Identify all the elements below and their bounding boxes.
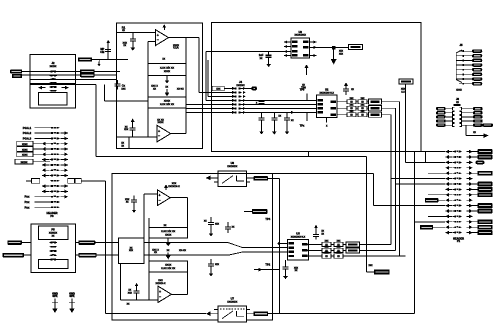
boxed net label DIN: [17, 141, 50, 146]
bus wire vertical left: [105, 181, 107, 314]
bus wire row5: [186, 103, 232, 105]
connector J2 shield inner box: [38, 93, 67, 106]
svg-text:xxxxx-x: xxxxx-x: [156, 282, 166, 285]
connector P5 outer box: [31, 224, 75, 272]
wire MIC_IN into box A: [92, 59, 128, 61]
cap mid right 1: [204, 217, 220, 237]
box D outline: [112, 174, 273, 321]
net label PGA2: [23, 131, 50, 135]
right loop vertical inner: [278, 178, 280, 313]
ground mid gain D: [166, 238, 171, 246]
resistor block RB4: [149, 261, 188, 272]
connector P5 inner bottom box: [39, 260, 69, 269]
wire J2 shield out: [76, 84, 96, 86]
IC U2 body: [317, 87, 338, 117]
component U6 pins: [214, 178, 254, 182]
wire J4 row6 right: [241, 107, 316, 109]
svg-text:U3: U3: [298, 30, 302, 34]
svg-text:TP2: TP2: [265, 262, 270, 266]
IC U2 power cap and arrow: [343, 82, 354, 94]
svg-text:xxxx: xxxx: [22, 154, 28, 157]
capacitor C2 on left edge: [115, 80, 127, 90]
svg-text:xxxxxxxx: xxxxxxxx: [294, 34, 306, 37]
gain resistor row 2: [346, 104, 396, 110]
svg-text:−: −: [159, 198, 161, 202]
svg-text:xxx: xxx: [216, 88, 221, 91]
text TP4 upper: [265, 217, 272, 227]
arrow into U2 pin: [291, 111, 294, 114]
net flag VCC right: [399, 79, 413, 93]
net flag MIC_R: [12, 74, 80, 78]
svg-text:xxxxxx: xxxxxx: [236, 84, 245, 87]
wire J2 third out: [30, 79, 116, 81]
svg-text:−: −: [157, 38, 159, 42]
net flag MIC_L: [10, 69, 80, 73]
arrow D low: [254, 268, 279, 272]
connector J6 label: [456, 97, 460, 104]
svg-text:−: −: [159, 295, 161, 299]
wire D out row1: [144, 242, 228, 244]
svg-text:xxxxx: xxxxx: [50, 65, 57, 68]
connector P1 right arrows: [467, 150, 473, 235]
op-amp U4B label: [156, 279, 166, 285]
cap mid right 2: [225, 222, 235, 233]
bottom resistor row 1: [314, 241, 391, 247]
ground GND_SPK 1: [52, 291, 58, 313]
IC U5 power cap and arrow: [313, 225, 325, 240]
svg-text:Pxx: Pxx: [24, 195, 29, 199]
connector J2 pin rows: [50, 71, 58, 92]
gain select text D: [179, 249, 186, 252]
wire box A top rail: [116, 32, 155, 34]
2-pin input block: [119, 238, 145, 263]
IC U3 left pins: [284, 40, 291, 57]
connector J2 outer box: [30, 55, 75, 84]
connector J2 label: [50, 61, 57, 68]
rail right top: [185, 38, 187, 97]
net label PGA1: [23, 126, 50, 130]
connector P5 label: [49, 228, 58, 238]
boxed label J4 left: [212, 86, 232, 91]
connector J4 pin arrowheads: [232, 87, 246, 114]
wire U4A in top: [144, 194, 158, 238]
connector P1 pin rows: [453, 151, 462, 234]
text TP2 lower: [265, 259, 272, 266]
op-amp U4A label: [168, 182, 180, 188]
boxed net label DOUT: [17, 147, 50, 152]
long route wire left vertical: [95, 85, 97, 157]
right loop bottom: [268, 313, 414, 315]
svg-text:+: +: [158, 130, 160, 134]
connector P5 pin rows: [50, 242, 58, 261]
svg-text:x.xx x/x xx: x.xx x/x xx: [160, 102, 175, 106]
resistor block RB1: [148, 57, 186, 75]
gain resistor row 1: [346, 98, 400, 104]
wire box F corner to P1: [421, 152, 445, 163]
svg-text:PGA.3: PGA.3: [23, 137, 32, 141]
gain resistor row 3: [346, 111, 391, 117]
bus wire bottom horizontal: [106, 313, 207, 315]
net flag E lower: [367, 156, 390, 274]
svg-text:xxxx: xxxx: [165, 233, 172, 237]
op-amp U1B: [157, 125, 171, 142]
net flag U3 out: [317, 44, 363, 49]
ground cap b: [272, 125, 277, 135]
route wire top of box D: [112, 173, 218, 175]
resistor R1 label: [122, 25, 126, 32]
svg-text:xxx: xxx: [215, 263, 220, 266]
svg-text:+: +: [159, 194, 161, 198]
net flag SPK- left: [3, 253, 32, 257]
text TP5 lower: [300, 112, 307, 127]
IC U3 right pins: [310, 40, 317, 57]
svg-text:+: +: [159, 290, 161, 294]
svg-text:−: −: [158, 134, 160, 138]
connector J6 bottom wire: [466, 125, 489, 138]
svg-text:xxxx: xxxx: [22, 148, 28, 151]
connector P1 left arrows: [446, 150, 453, 235]
svg-text:xxxx: xxxx: [22, 143, 28, 146]
svg-text:xxx: xxx: [215, 223, 220, 226]
svg-text:xxx: xxx: [368, 264, 373, 267]
wire box A bottom rail: [116, 136, 157, 138]
connector P1 label: [453, 236, 464, 243]
net flag U7 right: [254, 311, 269, 316]
op-amp U1B output: [171, 133, 186, 135]
rail right RB: [185, 108, 187, 134]
op-amp U1A label: [173, 44, 180, 50]
svg-text:xx-xx: xx-xx: [177, 88, 184, 91]
IC U3 power arrow: [305, 64, 309, 75]
box A outline: [116, 23, 202, 148]
cap mid right 3: [208, 259, 220, 277]
cap on bottom rail: [124, 122, 136, 137]
svg-text:x.xx x/x xx: x.xx x/x xx: [161, 266, 176, 270]
connector P1 net flags: [473, 149, 493, 235]
wire into U5 rows: [243, 248, 288, 252]
flag on P1 row15: [420, 225, 445, 230]
IC U2 bottom stub: [326, 117, 328, 127]
wire box D bottom rail: [121, 299, 159, 301]
component U6 switch: [220, 174, 245, 184]
IC U2 right pins: [338, 102, 347, 115]
ground at MIC node: [97, 60, 100, 67]
svg-text:xxx: xxx: [121, 87, 126, 90]
right loop vertical outer: [414, 152, 416, 314]
svg-text:PGA.1: PGA.1: [23, 126, 32, 130]
svg-text:xxxxx: xxxxx: [21, 161, 28, 164]
long route wire rise: [308, 152, 310, 157]
ground mid gain: [165, 75, 170, 83]
rail left RB D: [148, 218, 150, 300]
wire J4 row7 right: [241, 111, 316, 113]
wire J4 row4 right: [241, 99, 316, 101]
resistor block RB3: [149, 224, 188, 238]
component U6 box: [218, 171, 247, 187]
rail right RB D: [187, 272, 189, 295]
rail left RB: [147, 42, 149, 138]
wire gain input inside box A: [116, 100, 148, 102]
bottom resistor row 3: [314, 252, 405, 258]
ground below C_1uF: [266, 61, 271, 67]
component U7 left arrow: [206, 311, 218, 316]
power arrow VCC mic: [106, 40, 110, 43]
net flag OUT_R: [80, 73, 116, 77]
cap on D bottom rail: [128, 286, 140, 300]
box F outline: [212, 23, 421, 152]
svg-text:SPK: SPK: [52, 294, 57, 298]
wire VCC flag down: [405, 84, 445, 162]
connector J6 extra pad: [482, 123, 493, 126]
svg-text:CM: CM: [100, 50, 104, 54]
bus wire row7: [186, 111, 232, 113]
header P6 pin arrows: [42, 131, 68, 198]
net flag MIC_IN bar: [78, 57, 92, 61]
svg-text:TP4: TP4: [265, 217, 270, 221]
svg-text:xxxxxx-x: xxxxxx-x: [168, 185, 180, 188]
svg-text:TP5: TP5: [300, 88, 305, 92]
ground cap a: [259, 125, 264, 135]
boxed label P6 mid-left: [26, 179, 40, 184]
svg-text:xx: xx: [153, 87, 157, 90]
ground GND_SPK 2: [69, 291, 75, 313]
op-amp U4B output: [171, 293, 187, 295]
net label Px2: [24, 200, 50, 204]
branch to P1 row6: [391, 178, 445, 180]
gain select text: [177, 88, 184, 91]
boxed net label LRCLK: [15, 159, 50, 164]
connector J5 pad column: [464, 49, 482, 85]
junction cap mid F: [332, 46, 344, 55]
gain text left: [151, 85, 158, 91]
op-amp U1A output wire: [169, 37, 200, 39]
svg-text:xxx: xxx: [339, 52, 344, 55]
ground below C1: [131, 45, 136, 51]
branch to P1 row14: [415, 221, 445, 223]
staircase wire: [105, 85, 117, 102]
connector J4 label: [236, 80, 245, 87]
capacitor J4 row4: [256, 100, 265, 104]
connector J4 pin rows: [234, 88, 242, 114]
wire U4A out: [170, 198, 187, 228]
op-amp U4A: [158, 190, 171, 206]
net flag OUT_L: [80, 69, 120, 73]
boxed net label BCLK: [17, 152, 50, 157]
svg-text:Pxx: Pxx: [24, 205, 29, 209]
bus vertical 2: [208, 60, 232, 96]
text TP6: [301, 84, 306, 90]
op-amp U4B: [158, 286, 171, 302]
capacitor below b: [271, 112, 281, 124]
box A corner sub-box: [116, 137, 129, 148]
header P6 pin rows: [50, 127, 60, 208]
component U7 pins: [214, 310, 254, 314]
svg-text:U1A: U1A: [173, 46, 178, 50]
svg-text:xxxxxxx-x.x: xxxxxxx-x.x: [291, 236, 306, 239]
svg-text:xxx: xxx: [128, 291, 133, 294]
svg-text:J5: J5: [459, 43, 463, 47]
op-amp U1A: [156, 30, 169, 46]
capacitor C1: [123, 33, 136, 48]
component U7 box: [218, 306, 247, 322]
bus vertical 1: [199, 38, 232, 93]
svg-text:xx-xx: xx-xx: [179, 249, 186, 252]
bus wire row6: [186, 107, 232, 109]
wire J4 row5 right: [241, 103, 316, 105]
capacitor left U4A: [125, 196, 137, 207]
bottom resistor row 2: [314, 247, 396, 253]
svg-text:xx: xx: [154, 251, 158, 254]
net label PGA3: [23, 137, 50, 141]
wire P6 mid to bus: [81, 180, 105, 182]
branch to P1 row7: [396, 183, 445, 185]
ground cap c: [285, 125, 290, 135]
connector J6 right pads: [473, 107, 483, 127]
net flag SPK+ left: [7, 240, 31, 244]
twisted pair: [228, 243, 243, 256]
ground left U4A: [132, 207, 137, 213]
header P6 label: [47, 211, 58, 218]
net flag D mid: [244, 209, 267, 214]
IC U5 body: [288, 232, 309, 260]
net label Px1: [24, 195, 50, 199]
route wire U6 to corner: [247, 174, 445, 206]
connector J6 middle pins: [453, 104, 473, 126]
power arrow D bottom rail: [135, 283, 139, 286]
IC U5 bottom cap: [283, 260, 299, 273]
component U6 label: [227, 161, 238, 168]
net label Px3: [24, 205, 50, 209]
flag on P1 row10: [425, 198, 445, 203]
svg-text:xxxxxxx: xxxxxxx: [227, 165, 238, 168]
capacitor C_1uF: [259, 52, 272, 61]
svg-text:xxxx: xxxx: [157, 121, 164, 124]
svg-text:PGA.2: PGA.2: [23, 131, 32, 135]
net flag SPK+ right: [75, 240, 118, 244]
wire U6 flag to vertical: [268, 177, 279, 179]
capacitor below c: [284, 112, 294, 124]
routing vertical 2: [395, 108, 397, 250]
connector J5 bracket pins: [456, 50, 464, 85]
capacitor C_MP on VCC stub: [100, 43, 111, 60]
svg-text:xxxxxxx: xxxxxxx: [227, 301, 238, 304]
component U7 switch: [220, 309, 245, 319]
component U7 label: [227, 297, 238, 304]
connector J6 left pads: [436, 107, 452, 127]
svg-text:xxxx: xxxx: [456, 89, 462, 92]
boxed label P6 mid-right-1: [68, 179, 74, 184]
resistor block RB2: [148, 97, 186, 108]
connector P5 inner top box: [39, 226, 69, 240]
power arrow bottom rail: [131, 118, 135, 121]
arrow mid gain down: [165, 86, 170, 97]
wire U1A feedback left: [148, 41, 156, 43]
IC U5 bottom ground: [283, 273, 288, 279]
text TP5 upper: [300, 88, 307, 101]
rail vertical from block: [120, 263, 122, 300]
svg-text:xxxxxxx-x.x: xxxxxxx-x.x: [319, 91, 334, 94]
svg-text:xxx: xxx: [124, 128, 129, 131]
net flag U6 right: [254, 176, 269, 181]
op-amp U4A power arrow: [164, 184, 168, 190]
connector J5 label: [456, 43, 463, 91]
bus vertical 3: [206, 52, 232, 101]
gain text D: [152, 248, 159, 254]
oval flag J4 right: [241, 86, 257, 90]
long route wire horizontal: [96, 155, 367, 157]
svg-text:+: +: [157, 34, 159, 38]
IC U5 right pins: [306, 245, 314, 257]
svg-text:SPK: SPK: [69, 294, 74, 298]
wire into U5 row1: [278, 242, 288, 245]
connector J2 shield box: [30, 85, 75, 108]
op-amp U1A power arrow: [162, 24, 166, 30]
IC U3 body: [291, 30, 310, 58]
component U6 left arrow: [206, 176, 218, 181]
svg-text:xxxx: xxxx: [164, 69, 171, 73]
net flag SPK- right: [75, 253, 118, 257]
svg-text:Pxx: Pxx: [24, 200, 29, 204]
svg-text:xxx: xxx: [129, 249, 134, 252]
capacitor below a: [259, 112, 265, 124]
connector J2 shield arrows: [39, 86, 69, 90]
wire D out row2: [144, 254, 228, 256]
text below D rail: [127, 302, 130, 305]
routing vertical 1: [360, 102, 400, 256]
routing vertical 3: [390, 115, 392, 245]
svg-text:TPx: TPx: [300, 124, 305, 128]
boxed label P6 mid-right-2: [75, 179, 81, 184]
arrow mid gain D: [166, 249, 171, 260]
arrow down mid F: [331, 49, 337, 64]
op-amp U1B label: [157, 118, 164, 124]
connector P1 left stubs: [428, 173, 446, 216]
IC U3 wire left: [206, 51, 291, 53]
